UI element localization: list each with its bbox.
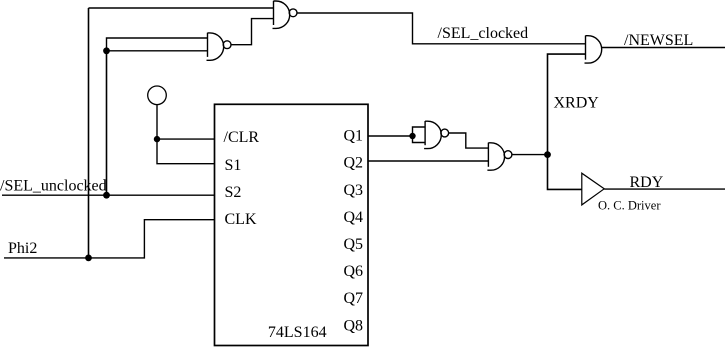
node junction XRDY / U4 output — [544, 151, 551, 158]
wire U2 bottom input — [107, 50, 208, 52]
wire U4 output to U7 top input — [449, 133, 489, 148]
wire U5 output /NEWSEL — [602, 47, 725, 49]
svg-text:Q1: Q1 — [344, 128, 364, 145]
node junction Q1 — [409, 133, 415, 139]
svg-text:/CLR: /CLR — [224, 129, 260, 146]
wire U4 bottom input — [413, 136, 426, 143]
svg-text:74LS164: 74LS164 — [268, 324, 327, 341]
power symbol circle above /CLR — [148, 86, 167, 105]
IC U3 74LS164 box — [215, 104, 369, 345]
wire U2 output to U1 bottom input — [231, 19, 274, 45]
nand U7 — [487, 143, 512, 171]
wire U2 top input — [107, 38, 208, 51]
wire Phi2 horizontal to CLK — [4, 220, 215, 258]
svg-text:Q6: Q6 — [344, 263, 364, 280]
wire from circle down to /CLR — [157, 105, 215, 139]
wire U4 top input — [413, 127, 426, 136]
svg-text:/SEL_unclocked: /SEL_unclocked — [0, 178, 107, 195]
node junction U2 inputs — [103, 47, 110, 54]
svg-text:CLK: CLK — [225, 211, 257, 228]
svg-text:XRDY: XRDY — [554, 95, 600, 112]
svg-text:Q2: Q2 — [344, 155, 364, 172]
svg-text:S2: S2 — [225, 184, 242, 201]
wire /SEL_unclocked horizontal to S2 — [2, 194, 215, 196]
wire vertical from NAND U2 inputs down to /SEL_unclocked — [106, 51, 108, 195]
node junction /SEL_unclocked — [103, 192, 110, 199]
wire top horizontal from left vertical to NAND U1 top input — [89, 7, 274, 9]
svg-text:Phi2: Phi2 — [8, 240, 37, 257]
svg-text:Q4: Q4 — [344, 209, 364, 226]
svg-text:O. C. Driver: O. C. Driver — [598, 198, 661, 212]
svg-text:/SEL_clocked: /SEL_clocked — [438, 25, 529, 42]
wire left vertical Phi2 riser — [88, 8, 90, 258]
buffer U6 O.C. driver — [582, 173, 604, 205]
svg-text:Q5: Q5 — [344, 236, 364, 253]
wire U1 output /SEL_clocked to AND U5 top input — [297, 13, 586, 44]
svg-text:Q7: Q7 — [344, 290, 364, 307]
node junction Phi2/riser — [85, 255, 92, 262]
wire Q1 to U4 inverter input — [368, 135, 413, 137]
wire U7 output to XRDY node — [512, 154, 548, 156]
svg-text:Q3: Q3 — [344, 182, 364, 199]
svg-text:S1: S1 — [225, 157, 242, 174]
and U5 — [585, 36, 602, 64]
nand U2 — [207, 33, 232, 61]
svg-text:/NEWSEL: /NEWSEL — [624, 32, 693, 49]
wire Q2 to U7 bottom input — [368, 160, 488, 162]
wire to S1 — [157, 139, 215, 164]
svg-text:Q8: Q8 — [344, 317, 364, 334]
wire RDY output — [604, 188, 725, 190]
wire XRDY vertical from AND U5 bottom input down to driver — [548, 54, 586, 189]
node junction /CLR-S1 — [154, 136, 160, 142]
nand U4 (Q1 inverter) — [424, 121, 449, 149]
nand U1 — [273, 1, 298, 29]
svg-text:RDY: RDY — [630, 174, 664, 191]
